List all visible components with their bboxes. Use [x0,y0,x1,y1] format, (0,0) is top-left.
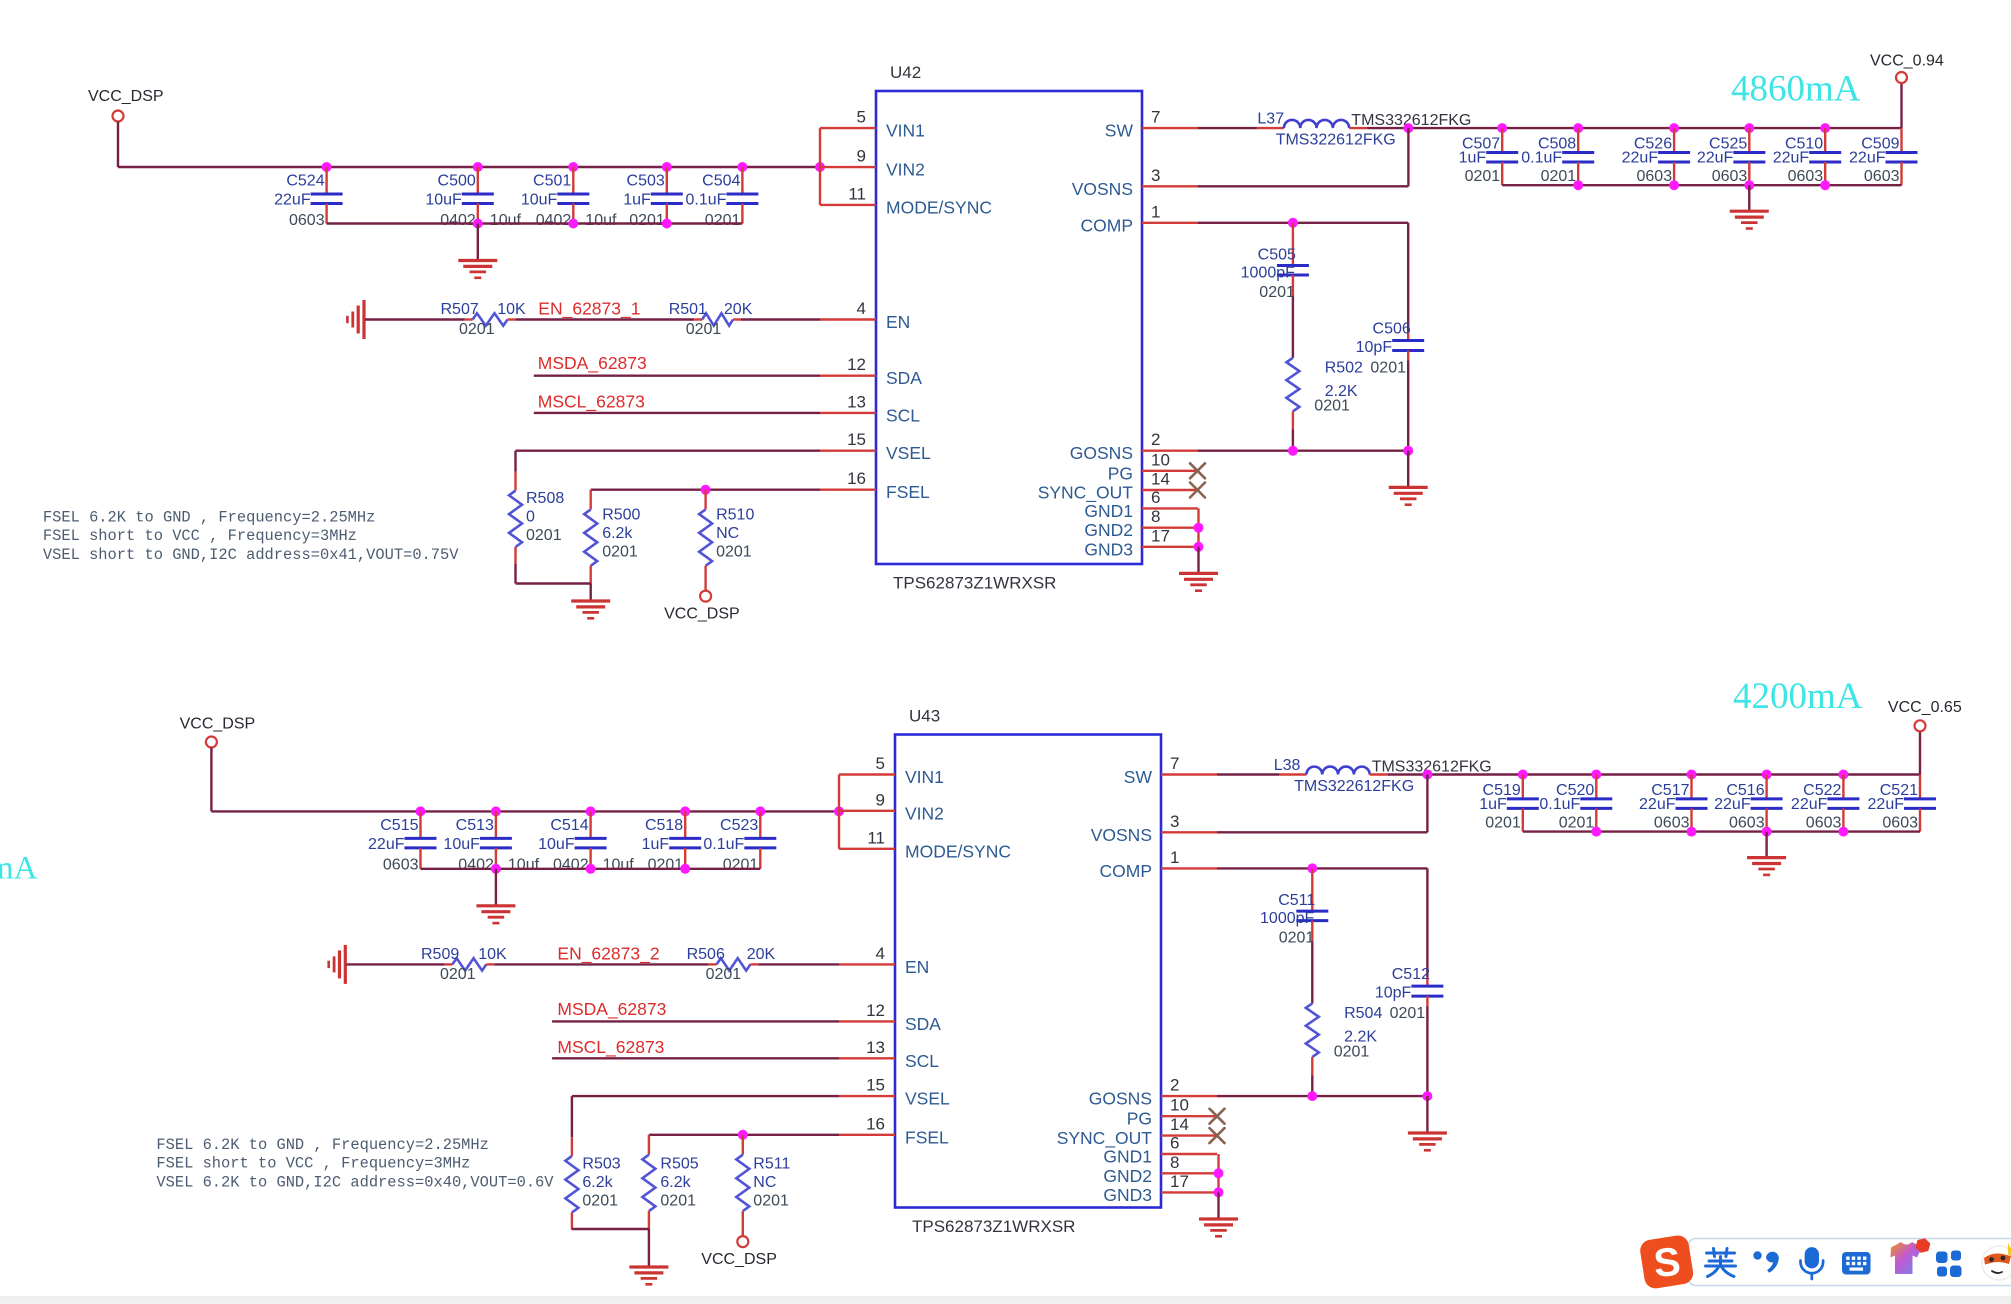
svg-text:mA: mA [0,851,38,887]
svg-text:0.1uF: 0.1uF [1521,150,1562,167]
svg-text:C523: C523 [720,817,758,834]
wire output cap gnd bus [1523,827,1920,837]
svg-text:0201: 0201 [753,1193,789,1210]
ground (COMP network) [1408,1133,1447,1150]
wire EN to pin 4 [758,963,839,965]
svg-text:MSCL_62873: MSCL_62873 [557,1037,664,1058]
wire VOUT bus [1388,731,1920,779]
U43 right pin stubs and numbers [1057,754,1217,1205]
ground (COMP network) [1389,487,1428,504]
svg-text:GOSNS: GOSNS [1089,1089,1152,1109]
svg-text:0201: 0201 [648,856,684,873]
svg-text:0603: 0603 [1788,168,1824,185]
svg-text:0201: 0201 [582,1193,618,1210]
ground (output caps) [1747,832,1786,875]
svg-text:C503: C503 [627,173,665,190]
svg-text:10uf: 10uf [585,212,617,229]
no-connect X (SYNC_OUT) [1210,1128,1225,1143]
svg-text:U42: U42 [890,63,921,82]
svg-text:0201: 0201 [716,544,752,561]
svg-text:0201: 0201 [723,856,759,873]
svg-text:SCL: SCL [905,1051,939,1071]
svg-text:0201: 0201 [706,966,742,983]
svg-text:GND2: GND2 [1103,1166,1152,1186]
svg-text:C506: C506 [1373,321,1411,338]
svg-text:0.1uF: 0.1uF [685,192,726,209]
capacitor C521 22uF [1868,775,1936,832]
wire VIN1/VIN2/MODE bracket [819,128,821,205]
svg-text:12: 12 [866,1001,885,1020]
svg-text:VIN2: VIN2 [886,160,925,180]
svg-text:6: 6 [1170,1134,1179,1153]
svg-text:C505: C505 [1258,247,1296,264]
svg-text:MODE/SYNC: MODE/SYNC [886,197,992,217]
svg-text:R502: R502 [1325,360,1363,377]
svg-text:FSEL short to VCC , Frequency=: FSEL short to VCC , Frequency=3MHz [156,1155,470,1173]
net label MSDA_62873 and wire [534,353,820,376]
ground (VSEL/FSEL divider) [629,1229,668,1284]
svg-text:PG: PG [1108,463,1133,483]
svg-text:0603: 0603 [1864,168,1900,185]
IME app grid icon [1936,1251,1962,1278]
svg-text:0201: 0201 [1390,1005,1426,1022]
svg-text:0603: 0603 [1637,168,1673,185]
ground (EN pulldown) [329,945,346,984]
power port VCC_DSP (U43 input) [180,716,256,748]
resistor R509 10K [421,946,507,983]
svg-text:3: 3 [1151,166,1160,185]
svg-text:C504: C504 [702,173,740,190]
svg-text:L38: L38 [1274,757,1301,774]
svg-text:VSEL short to GND,I2C address=: VSEL short to GND,I2C address=0x41,VOUT=… [43,546,459,564]
svg-text:SCL: SCL [886,405,920,425]
svg-text:0402: 0402 [458,856,494,873]
svg-text:5: 5 [876,754,885,773]
IC U42 TPS62873Z1WRXSR [876,63,1142,593]
svg-text:0201: 0201 [1559,814,1595,831]
wire SW to inductor [1217,773,1279,775]
ground (EN pulldown) [347,300,364,339]
inductor L37 TMS322612FKG [1257,111,1471,149]
svg-text:R506: R506 [687,946,725,963]
svg-text:L37: L37 [1257,111,1284,128]
svg-text:R501: R501 [669,301,707,318]
svg-text:7: 7 [1170,754,1179,773]
svg-text:22uF: 22uF [1849,150,1886,167]
no-connect X (SYNC_OUT) [1190,483,1205,498]
svg-text:VCC_DSP: VCC_DSP [180,716,256,733]
wire COMP net [1217,863,1427,873]
svg-text:12: 12 [847,355,866,374]
svg-text:3: 3 [1170,812,1179,831]
svg-text:0201: 0201 [440,966,476,983]
capacitor C514 10uF [538,811,634,873]
svg-text:22uF: 22uF [1791,796,1828,813]
svg-text:4860mA: 4860mA [1731,69,1861,110]
wire VOSNS sense [1198,128,1408,186]
svg-text:1: 1 [1151,202,1160,221]
Sogou logo [1639,1234,1695,1290]
U43 left pin stubs and numbers [839,754,1011,1147]
svg-text:1uF: 1uF [1479,796,1507,813]
svg-text:MSDA_62873: MSDA_62873 [538,353,647,374]
svg-text:0201: 0201 [526,527,562,544]
svg-text:0201: 0201 [459,321,495,338]
svg-text:SW: SW [1105,121,1134,141]
capacitor C518 1uF [642,811,702,873]
svg-text:EN_62873_1: EN_62873_1 [538,299,640,320]
svg-text:R510: R510 [716,507,754,524]
svg-text:VIN1: VIN1 [886,121,925,141]
ground (VSEL/FSEL divider) [571,584,610,619]
svg-text:10K: 10K [478,946,507,963]
ground (input caps) [476,869,515,923]
svg-text:COMP: COMP [1100,861,1153,881]
svg-text:VCC_DSP: VCC_DSP [664,606,740,623]
wire VOUT bus [1367,83,1901,133]
ground (input caps) [458,224,497,278]
wire VSEL-FSEL gnd link [572,1228,649,1230]
svg-text:GND1: GND1 [1084,501,1133,521]
svg-text:VIN1: VIN1 [905,767,944,787]
IME mode icon (CJK char) [1706,1249,1736,1277]
svg-text:VOSNS: VOSNS [1072,179,1133,199]
capacitor C519 1uF [1479,775,1539,832]
IME skin icon [1891,1238,1931,1274]
svg-text:0: 0 [526,509,535,526]
svg-text:10uf: 10uf [490,212,522,229]
resistor R508 0 [509,490,564,584]
svg-text:1uF: 1uF [623,192,651,209]
svg-text:VCC_0.94: VCC_0.94 [1870,53,1944,70]
svg-text:10uF: 10uF [443,836,480,853]
svg-text:0201: 0201 [705,212,741,229]
svg-text:EN: EN [905,957,929,977]
svg-text:MSCL_62873: MSCL_62873 [538,391,645,412]
svg-text:GND3: GND3 [1103,1185,1152,1205]
svg-text:17: 17 [1170,1172,1189,1191]
wire FSEL net [591,485,820,510]
svg-text:C512: C512 [1392,966,1430,983]
wire VIN bus [118,122,825,173]
svg-text:0603: 0603 [289,212,325,229]
no-connect X (PG) [1210,1109,1225,1124]
ground (IC GND pins) [1179,573,1218,590]
svg-text:SDA: SDA [886,368,922,388]
svg-text:FSEL 6.2K to GND , Frequency=2: FSEL 6.2K to GND , Frequency=2.25MHz [156,1136,489,1154]
capacitor C505 1000pF [1241,223,1309,358]
svg-text:VSEL: VSEL [905,1089,950,1109]
svg-text:0603: 0603 [1729,814,1765,831]
svg-text:FSEL 6.2K to GND , Frequency=2: FSEL 6.2K to GND , Frequency=2.25MHz [43,509,376,527]
capacitor C507 1uF [1459,128,1519,185]
svg-text:FSEL: FSEL [905,1127,949,1147]
svg-text:NC: NC [716,525,739,542]
svg-text:VCC_DSP: VCC_DSP [701,1251,777,1268]
power port VCC_0.65 [1888,699,1962,731]
svg-text:22uF: 22uF [1868,796,1905,813]
svg-text:8: 8 [1151,507,1160,526]
svg-text:0201: 0201 [602,544,638,561]
resistor R507 10K [441,301,526,338]
svg-text:14: 14 [1151,470,1170,489]
wire VIN bus [211,748,844,817]
svg-text:R505: R505 [660,1156,698,1173]
svg-text:VCC_DSP: VCC_DSP [88,88,164,105]
IME toolbar background [1689,1239,2011,1286]
svg-text:U43: U43 [909,707,940,726]
wire VSEL-FSEL gnd link [516,582,591,584]
resistor R505 6.2k [642,1155,698,1229]
svg-text:10: 10 [1151,450,1170,469]
capacitor C500 10uF [425,167,521,229]
svg-text:NC: NC [753,1174,776,1191]
capacitor C517 22uF [1639,775,1707,832]
svg-text:22uF: 22uF [1714,796,1751,813]
svg-text:15: 15 [847,430,866,449]
capacitor C515 22uF [368,811,436,873]
svg-text:4: 4 [857,299,866,318]
power port VCC_DSP (FSEL pull-up) [701,1236,777,1268]
capacitor C524 22uF [274,167,342,229]
svg-text:20K: 20K [724,301,753,318]
U42 right pin stubs and numbers [1038,108,1198,560]
svg-text:10K: 10K [497,301,526,318]
svg-text:9: 9 [876,790,885,809]
svg-text:VSEL: VSEL [886,443,931,463]
svg-text:1000pF: 1000pF [1260,910,1314,927]
svg-text:VSEL 6.2K to GND,I2C address=0: VSEL 6.2K to GND,I2C address=0x40,VOUT=0… [156,1173,554,1191]
svg-text:22uF: 22uF [368,836,405,853]
svg-text:22uF: 22uF [1622,150,1659,167]
svg-text:5: 5 [857,108,866,127]
inductor L38 TMS322612FKG [1274,757,1492,795]
capacitor C508 0.1uF [1521,128,1594,185]
svg-text:10uF: 10uF [425,192,462,209]
svg-text:0201: 0201 [660,1193,696,1210]
svg-text:11: 11 [867,828,885,847]
svg-text:1000pF: 1000pF [1241,265,1295,282]
IME microphone icon [1801,1249,1824,1280]
svg-text:9: 9 [857,147,866,166]
wire EN net / resistor R507 10K [365,318,465,320]
svg-text:GND2: GND2 [1084,520,1133,540]
svg-text:0603: 0603 [1882,814,1918,831]
IME punctuation icon [1753,1251,1778,1272]
svg-text:C513: C513 [456,817,494,834]
svg-text:R507: R507 [441,301,479,318]
svg-text:1uF: 1uF [1459,150,1487,167]
capacitor C509 22uF [1849,128,1917,185]
net label MSDA_62873 and wire [552,999,839,1022]
svg-text:15: 15 [866,1076,885,1095]
svg-text:MODE/SYNC: MODE/SYNC [905,841,1011,861]
svg-text:MSDA_62873: MSDA_62873 [557,999,666,1020]
svg-text:C511: C511 [1278,892,1315,909]
svg-text:22uF: 22uF [274,192,311,209]
svg-text:R509: R509 [421,946,459,963]
svg-text:0603: 0603 [1712,168,1748,185]
svg-text:10uf: 10uf [508,856,540,873]
svg-text:R503: R503 [582,1156,620,1173]
svg-text:TMS322612FKG: TMS322612FKG [1276,132,1396,149]
IC U43 TPS62873Z1WRXSR [895,707,1161,1237]
resistor R510 NC [699,490,754,591]
svg-text:1: 1 [1170,848,1179,867]
svg-text:10uF: 10uF [521,192,558,209]
svg-text:VCC_0.65: VCC_0.65 [1888,699,1962,716]
svg-text:22uF: 22uF [1639,796,1676,813]
svg-text:R500: R500 [602,507,640,524]
svg-text:10uF: 10uF [538,836,575,853]
U42 left pin stubs and numbers [820,108,992,503]
svg-text:R508: R508 [526,490,564,507]
wire FSEL net [649,1130,839,1155]
svg-text:22uF: 22uF [1773,150,1810,167]
wire EN net / resistor R509 10K [346,963,444,965]
svg-text:10uf: 10uf [603,856,635,873]
svg-text:0201: 0201 [1370,360,1406,377]
svg-text:S: S [1652,1240,1682,1286]
svg-text:FSEL: FSEL [886,482,930,502]
svg-text:22uF: 22uF [1697,150,1734,167]
svg-text:1uF: 1uF [642,836,670,853]
wire GOSNS net [1217,1091,1432,1133]
svg-text:TPS62873Z1WRXSR: TPS62873Z1WRXSR [893,574,1056,593]
wire GND1/GND2/GND3 bracket [1214,1154,1224,1219]
net label MSCL_62873 and wire [552,1037,839,1059]
wire SW to inductor [1198,127,1257,129]
svg-text:TPS62873Z1WRXSR: TPS62873Z1WRXSR [912,1217,1075,1236]
svg-text:R504: R504 [1344,1005,1382,1022]
svg-text:0201: 0201 [1334,1043,1370,1060]
capacitor C520 0.1uF [1539,775,1612,832]
resistor R502 2.2K [1286,358,1363,451]
svg-text:10: 10 [1170,1096,1189,1115]
svg-text:17: 17 [1151,526,1170,545]
resistor R501 20K [669,301,753,338]
resistor R506 20K [687,946,776,983]
note text block [156,1136,554,1191]
svg-text:C514: C514 [550,817,588,834]
svg-text:0.1uF: 0.1uF [703,836,744,853]
capacitor C522 22uF [1791,775,1859,832]
svg-text:EN: EN [886,312,910,332]
power port VCC_0.94 [1870,53,1944,84]
svg-text:C515: C515 [380,817,418,834]
svg-text:0201: 0201 [1465,168,1501,185]
capacitor C504 0.1uF [685,167,758,229]
svg-text:20K: 20K [747,946,776,963]
svg-text:GOSNS: GOSNS [1070,443,1133,463]
wire EN mid [494,963,708,965]
svg-text:4: 4 [876,944,885,963]
svg-text:2: 2 [1151,430,1160,449]
power port VCC_DSP (FSEL pull-up) [664,591,740,623]
capacitor C510 22uF [1773,128,1841,185]
svg-text:C524: C524 [286,173,324,190]
svg-text:0402: 0402 [440,212,476,229]
svg-text:16: 16 [847,469,866,488]
svg-text:PG: PG [1127,1109,1152,1129]
svg-text:EN_62873_2: EN_62873_2 [557,943,659,964]
svg-text:VIN2: VIN2 [905,803,944,823]
wire input cap gnd bus [421,864,761,874]
svg-text:11: 11 [848,184,866,203]
svg-text:GND1: GND1 [1103,1147,1152,1167]
svg-text:0603: 0603 [1654,814,1690,831]
wire GND1/GND2/GND3 bracket [1194,508,1204,573]
svg-text:0201: 0201 [1259,284,1295,301]
svg-text:7: 7 [1151,108,1160,127]
resistor R504 2.2K [1306,1003,1383,1096]
svg-text:SW: SW [1124,767,1153,787]
svg-text:10pF: 10pF [1375,985,1412,1002]
capacitor C506 10pF [1356,223,1425,451]
svg-text:C500: C500 [438,173,476,190]
svg-text:4200mA: 4200mA [1733,676,1863,717]
svg-text:14: 14 [1170,1115,1189,1134]
capacitor C513 10uF [443,811,539,873]
IME keyboard icon [1842,1252,1871,1275]
IME emoji icon [1982,1243,2011,1280]
capacitor C516 22uF [1714,775,1782,832]
svg-text:0201: 0201 [1485,814,1521,831]
svg-text:VOSNS: VOSNS [1091,825,1152,845]
svg-text:0201: 0201 [1314,398,1350,415]
svg-text:6.2k: 6.2k [582,1174,613,1191]
svg-text:0.1uF: 0.1uF [1539,796,1580,813]
capacitor C512 10pF [1375,868,1444,1096]
wire VIN1/VIN2/MODE bracket [838,775,840,849]
bottom window strip [0,1297,2011,1304]
svg-text:6.2k: 6.2k [660,1174,691,1191]
svg-text:C501: C501 [533,173,571,190]
wire VSEL net [516,451,821,491]
svg-text:0201: 0201 [629,212,665,229]
svg-text:8: 8 [1170,1153,1179,1172]
wire output cap gnd bus [1502,180,1901,190]
capacitor C523 0.1uF [703,811,776,873]
wire input cap gnd bus [327,219,743,229]
svg-text:0402: 0402 [553,856,589,873]
wire EN to pin 4 [741,318,820,320]
svg-text:0603: 0603 [1806,814,1842,831]
svg-text:GND3: GND3 [1084,539,1133,559]
wire VOSNS sense [1217,775,1427,833]
svg-text:13: 13 [866,1038,885,1057]
svg-text:R511: R511 [753,1156,790,1173]
wire GOSNS net [1198,446,1413,488]
capacitor C501 10uF [521,167,617,229]
svg-text:0201: 0201 [1541,168,1577,185]
svg-text:FSEL short to VCC , Frequency=: FSEL short to VCC , Frequency=3MHz [43,527,357,545]
no-connect X (PG) [1190,463,1205,478]
note text block [43,509,459,564]
capacitor C526 22uF [1622,128,1690,185]
svg-text:10pF: 10pF [1356,339,1393,356]
capacitor C511 1000pF [1260,868,1328,1003]
svg-text:0201: 0201 [686,321,722,338]
svg-text:6.2k: 6.2k [602,525,633,542]
svg-text:0402: 0402 [536,212,572,229]
capacitor C525 22uF [1697,128,1765,185]
wire EN mid [516,318,695,320]
capacitor C503 1uF [623,167,683,229]
svg-text:6: 6 [1151,488,1160,507]
svg-text:TMS322612FKG: TMS322612FKG [1294,778,1414,795]
svg-text:0201: 0201 [1279,930,1315,947]
